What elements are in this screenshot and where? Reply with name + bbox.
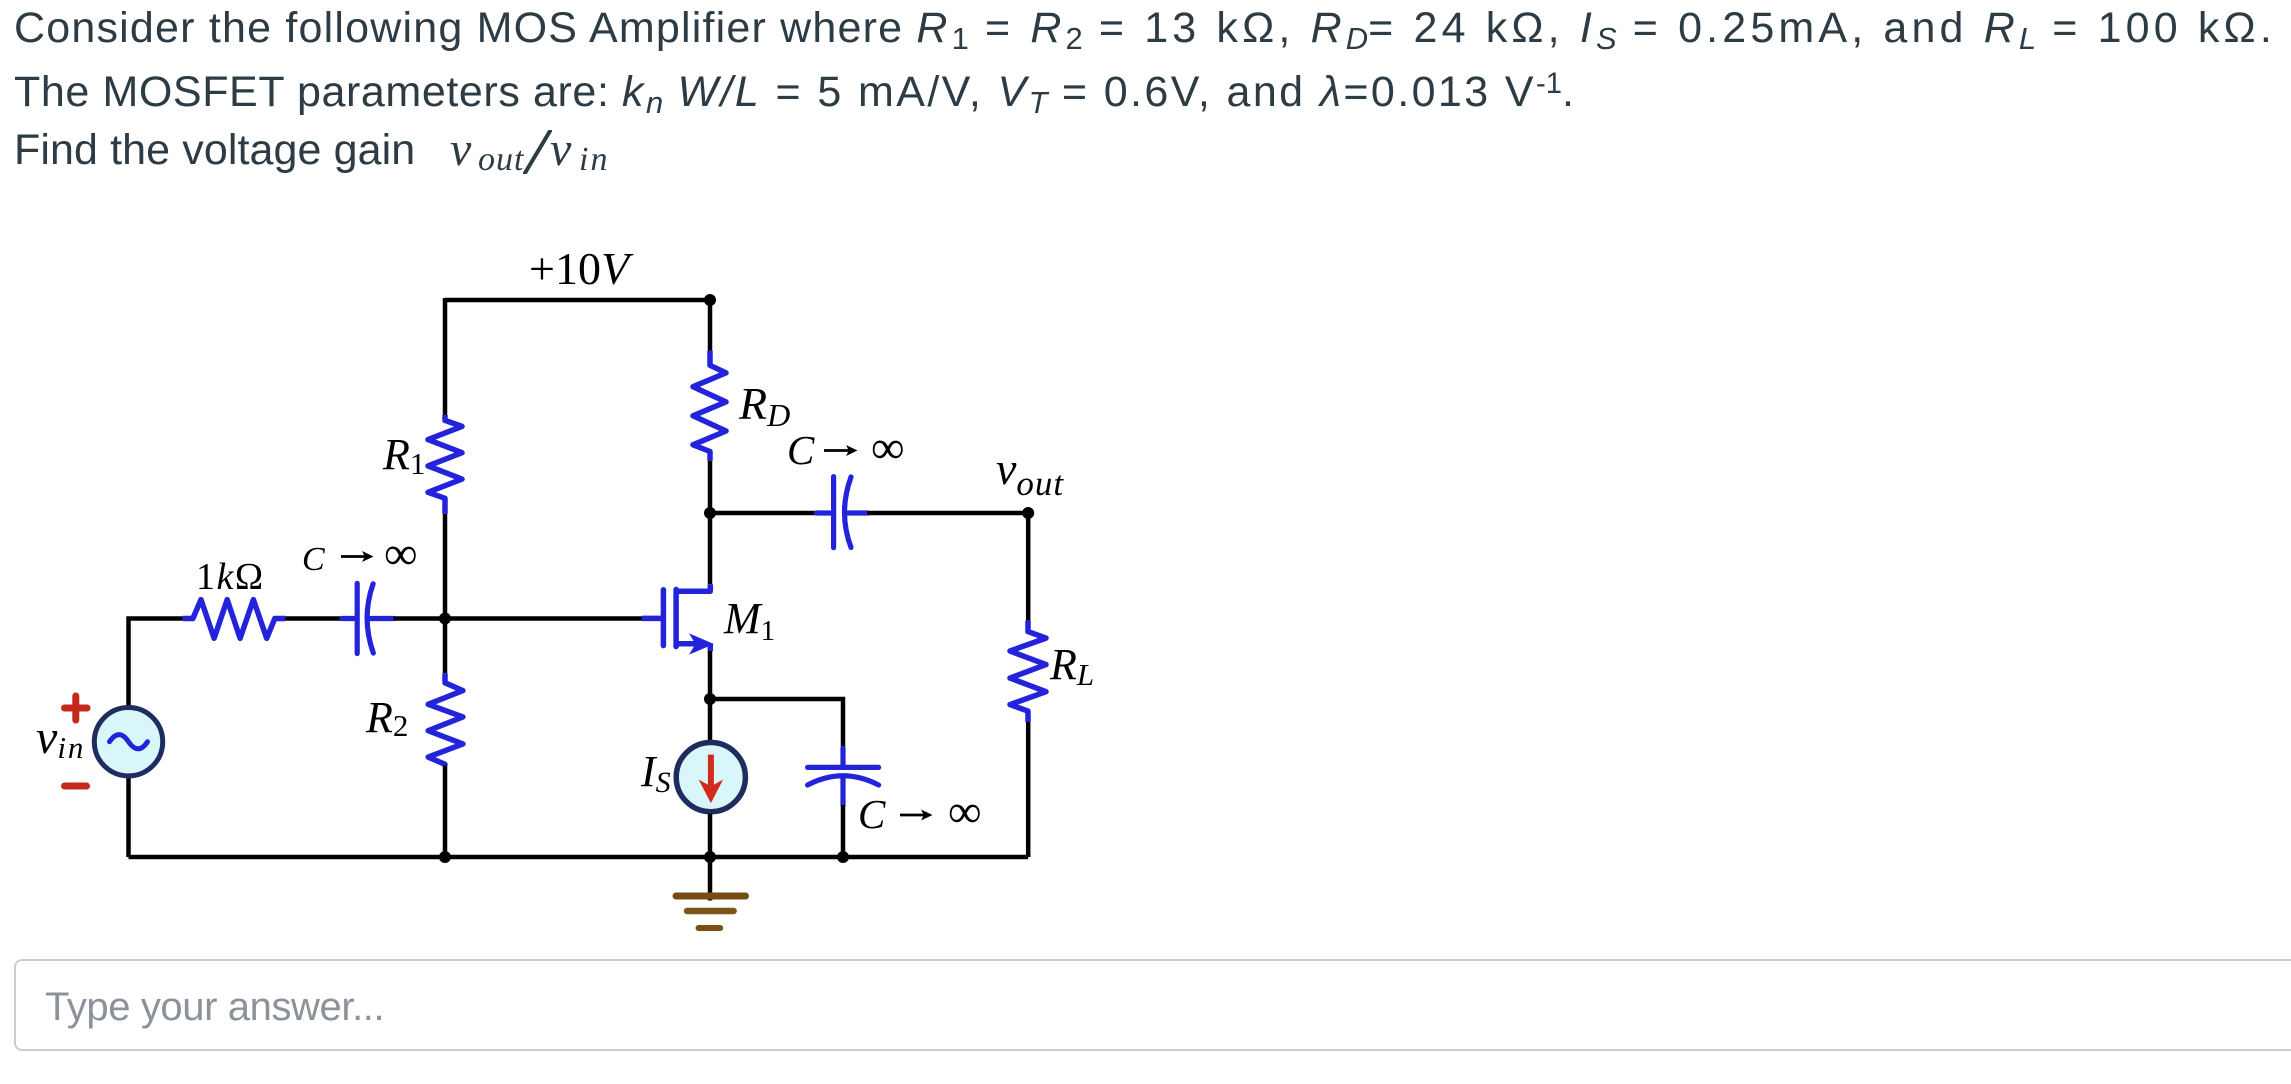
wire: +10V top rail xyxy=(445,298,710,303)
wire: current source to bottom rail xyxy=(708,814,713,857)
svg-text:vout: vout xyxy=(996,443,1064,503)
current source IS arrow shaft xyxy=(708,755,714,786)
transistor M1 gate lead xyxy=(642,616,661,622)
wire: 1kOhm to input capacitor xyxy=(285,616,342,621)
ground bar 3 xyxy=(699,925,721,931)
wire: rail down to R1 xyxy=(443,298,448,415)
current source IS arrow head xyxy=(701,782,721,801)
wire: RL to bottom rail xyxy=(1026,722,1031,857)
wire: bypass capacitor to bottom rail xyxy=(841,805,846,857)
svg-text:RD: RD xyxy=(738,378,790,433)
node: +10V rail to RD xyxy=(704,294,716,306)
node: drain output junction xyxy=(704,507,716,519)
resistor RD xyxy=(693,351,726,461)
ground stem xyxy=(708,857,713,901)
ground bar 1 xyxy=(676,893,746,900)
wire: output capacitor to vout node xyxy=(867,511,1028,516)
transistor M1 gate bar xyxy=(661,590,667,646)
label C to infinity (output) xyxy=(787,422,905,474)
answer placeholder text xyxy=(45,985,384,1030)
svg-text:RL: RL xyxy=(1049,640,1094,692)
wire: drain node down to MOSFET drain xyxy=(708,513,713,584)
svg-text:C: C xyxy=(787,427,815,473)
wire: input capacitor to MOSFET gate xyxy=(394,616,642,621)
node: bypass capacitor rail junction xyxy=(837,851,849,863)
wire: bottom ground rail xyxy=(129,855,1029,860)
label minus sign xyxy=(65,783,87,790)
svg-text:M1: M1 xyxy=(723,594,775,647)
resistor 1kOhm xyxy=(183,600,285,639)
node: ground junction xyxy=(704,851,716,863)
svg-text:∞: ∞ xyxy=(384,528,418,580)
wire: vin bottom lead xyxy=(126,778,131,857)
node: vout xyxy=(1022,507,1034,519)
wire: source node to bypass capacitor branch xyxy=(710,699,843,748)
question text line 1 xyxy=(14,4,2276,53)
label plus sign xyxy=(65,696,88,720)
wire: R1 to gate node xyxy=(443,514,448,619)
wire: vout node to RL xyxy=(1026,513,1031,621)
svg-text:IS: IS xyxy=(640,747,671,799)
label C to infinity (input) xyxy=(302,528,418,580)
transistor M1 channel bar xyxy=(673,589,679,646)
svg-text:∞: ∞ xyxy=(871,422,905,474)
wire: drain node to output capacitor xyxy=(710,511,816,516)
svg-text:∞: ∞ xyxy=(948,786,982,838)
resistor RL xyxy=(1010,621,1046,722)
svg-text:R2: R2 xyxy=(365,693,408,743)
voltage source vin circle xyxy=(94,708,162,776)
math slash xyxy=(523,130,550,172)
svg-text:1kΩ: 1kΩ xyxy=(196,556,265,598)
resistor R2 xyxy=(428,673,463,765)
resistor R1 xyxy=(428,415,462,514)
ground bar 2 xyxy=(687,908,734,915)
transistor M1 drain lead xyxy=(676,584,710,591)
question text line 3 xyxy=(14,126,415,175)
answer input box xyxy=(14,959,2291,1051)
transistor M1 source lead xyxy=(676,644,710,651)
svg-text:+10V: +10V xyxy=(529,243,634,294)
svg-text:C: C xyxy=(302,541,325,578)
capacitor C output coupling (C to infinity) xyxy=(816,477,867,548)
wire: MOSFET source down to source node xyxy=(708,651,713,699)
capacitor C input coupling (C to infinity) xyxy=(342,583,394,653)
math vin xyxy=(550,122,571,177)
svg-text:C: C xyxy=(858,791,886,837)
node: gate bias junction xyxy=(439,613,451,625)
node: R2 bottom rail junction xyxy=(439,851,451,863)
wire: source node to current source xyxy=(708,699,713,741)
transistor M1 source arrow xyxy=(692,636,712,653)
label C to infinity (bypass) xyxy=(858,786,982,838)
node: source junction xyxy=(704,693,716,705)
wire: vin top lead xyxy=(129,619,183,706)
label +10V xyxy=(529,243,634,294)
wire: R2 to bottom rail xyxy=(443,766,448,858)
question text line 2 xyxy=(14,68,1576,117)
math vout xyxy=(450,122,471,177)
current source IS circle xyxy=(676,743,745,812)
wire: rail to RD xyxy=(708,300,713,351)
wire: gate node to R2 xyxy=(443,619,448,674)
wire: RD to drain node xyxy=(708,461,713,513)
voltage source vin sine symbol xyxy=(110,735,148,749)
capacitor C bypass (C to infinity) xyxy=(808,748,879,805)
svg-text:R1: R1 xyxy=(382,430,425,481)
